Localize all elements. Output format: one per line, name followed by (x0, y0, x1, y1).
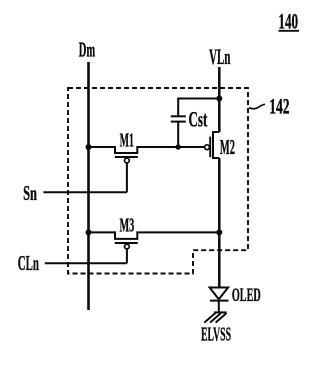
svg-text:142: 142 (269, 94, 289, 119)
svg-text:CLn: CLn (18, 251, 39, 275)
svg-text:M1: M1 (120, 129, 134, 151)
svg-text:VLn: VLn (209, 44, 230, 69)
svg-text:Sn: Sn (23, 181, 37, 205)
svg-text:Cst: Cst (189, 107, 208, 132)
svg-text:OLED: OLED (232, 285, 261, 306)
svg-text:ELVSS: ELVSS (201, 325, 231, 346)
svg-text:140: 140 (278, 9, 298, 34)
svg-text:M2: M2 (220, 135, 235, 159)
svg-text:Dm: Dm (79, 37, 96, 61)
svg-text:M3: M3 (120, 214, 135, 236)
